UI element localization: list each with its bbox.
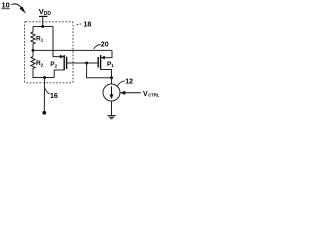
svg-text:12: 12 <box>125 79 133 86</box>
wire ground stem <box>111 101 113 116</box>
current source 12 <box>103 84 120 101</box>
svg-text:18: 18 <box>84 22 92 29</box>
ground <box>107 116 115 119</box>
wire to current source <box>111 78 113 84</box>
node 16 terminal <box>42 111 46 115</box>
label 20 <box>94 41 109 49</box>
label VCTRL with arrow <box>120 91 160 98</box>
label 10 <box>2 0 26 13</box>
svg-text:CTRL: CTRL <box>148 93 159 98</box>
wire gate feedback <box>87 63 112 78</box>
node midpoint <box>32 49 35 52</box>
wire R1 to node <box>32 45 34 57</box>
resistor R2 <box>31 57 35 70</box>
dashed box 18 <box>25 22 74 83</box>
supply VDD label <box>39 7 52 17</box>
wire VDD stem <box>42 16 44 26</box>
svg-text:10: 10 <box>2 0 10 9</box>
transistor P1 <box>98 50 112 77</box>
svg-text:20: 20 <box>101 41 109 48</box>
wire node 16 drop <box>43 78 45 113</box>
resistor R1 <box>31 32 35 45</box>
node drain junction <box>110 76 113 79</box>
wire left branch to R1 <box>32 27 34 33</box>
wire R2 bottom L <box>33 69 54 78</box>
wire top bar <box>33 26 53 28</box>
label 12 <box>117 79 133 87</box>
wire gate rail (midpoint to right column) <box>33 49 112 51</box>
wire right branch <box>53 27 61 57</box>
wire gate link P2 to P1 <box>67 62 99 64</box>
svg-text:16: 16 <box>50 93 58 100</box>
node junction VDD <box>41 25 44 28</box>
label 16 <box>45 89 58 101</box>
label 18 <box>77 22 92 29</box>
node gate junction <box>85 62 88 65</box>
node bottom junction <box>43 76 46 79</box>
svg-text:V: V <box>143 91 148 98</box>
transistor P2 <box>54 55 66 78</box>
